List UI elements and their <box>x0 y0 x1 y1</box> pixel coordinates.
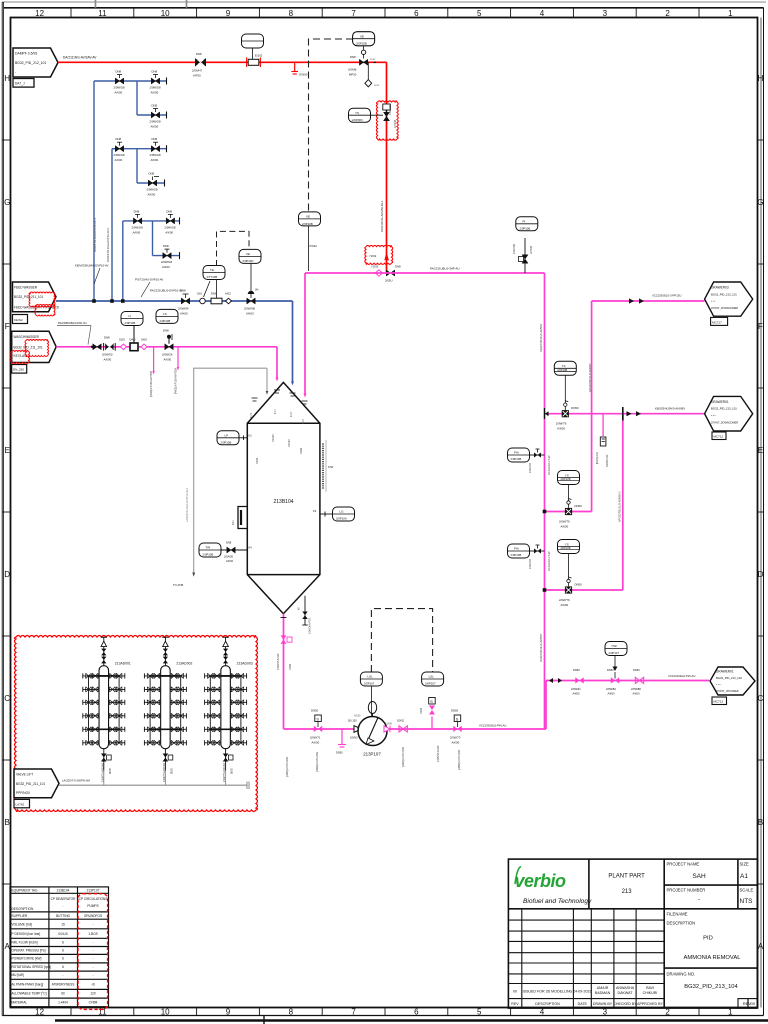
wire branch y511 <box>545 511 592 513</box>
svg-text:LS: LS <box>163 312 167 316</box>
svg-text:A/K00: A/K00 <box>452 741 460 745</box>
svg-text:S: S <box>430 700 433 704</box>
svg-text:00: 00 <box>751 1001 756 1006</box>
svg-text:A/K00: A/K00 <box>162 265 170 269</box>
svg-text:DA/203T/3U3L/0-AV/NBY: DA/203T/3U3L/0-AV/NBY <box>540 323 543 352</box>
svg-text:REV: REV <box>511 1002 519 1006</box>
flow arrows <box>627 411 632 416</box>
svg-text:50/.150: 50/.150 <box>348 719 357 723</box>
svg-text:BG32_PID_213_101: BG32_PID_213_101 <box>711 292 737 296</box>
instrument VE top <box>353 32 375 46</box>
node ticks <box>622 407 624 421</box>
svg-text:• • •: • • • <box>716 683 721 687</box>
svg-text:2/0P10B: 2/0P10B <box>221 441 232 445</box>
svg-text:2/0W/G8: 2/0W/G8 <box>114 153 125 157</box>
svg-text:2/0P10B: 2/0P10B <box>511 457 522 461</box>
svg-text:DN50: DN50 <box>573 668 580 672</box>
svg-text:2/0A/D6 A/P20: 2/0A/D6 A/P20 <box>309 618 312 634</box>
svg-text:3: 3 <box>603 9 608 18</box>
bottom cone drains <box>283 614 285 729</box>
node junctions on header <box>92 299 96 303</box>
title block <box>508 859 757 1008</box>
svg-text:VE: VE <box>246 252 250 256</box>
wire blue tree risers <box>93 81 95 301</box>
svg-text:LA/203T/3-DGA-DVP/10-AV-1: LA/203T/3-DGA-DVP/10-AV-1 <box>185 487 189 522</box>
svg-text:2/0W/04: 2/0W/04 <box>178 307 189 311</box>
svg-text:FEED WASSER/HT PIPERACK: FEED WASSER/HT PIPERACK <box>14 306 60 310</box>
svg-text:2/0W/73: 2/0W/73 <box>450 736 461 740</box>
svg-text:E/102: E/102 <box>255 54 263 58</box>
gray capillary line <box>194 368 267 573</box>
svg-text:PG/T10/4U-DVP10-AV: PG/T10/4U-DVP10-AV <box>135 278 163 282</box>
svg-text:2/0P10B: 2/0P10B <box>302 222 313 226</box>
svg-text:DN25: DN25 <box>232 767 234 774</box>
svg-text:-: - <box>62 904 63 908</box>
svg-text:VC/203T/3U3L/0-AV/NBY: VC/203T/3U3L/0-AV/NBY <box>540 633 543 662</box>
svg-text:MC712: MC712 <box>714 700 724 704</box>
svg-text:S: S <box>456 717 459 721</box>
svg-text:2/TANT_UPCOMER: 2/TANT_UPCOMER <box>716 690 739 693</box>
svg-text:2: 2 <box>665 9 670 18</box>
svg-text:S: S <box>316 717 319 721</box>
pink check diamond 1 <box>121 344 127 350</box>
svg-text:213P107: 213P107 <box>87 889 100 893</box>
svg-text:DN8: DN8 <box>152 104 158 108</box>
svg-text:A/K00: A/K00 <box>165 230 173 234</box>
svg-text:DN8: DN8 <box>116 137 122 141</box>
wire riser to y680 <box>545 681 547 730</box>
svg-text:10: 10 <box>161 9 170 18</box>
svg-text:LG: LG <box>340 510 345 514</box>
svg-text:ANWASHA: ANWASHA <box>616 986 635 990</box>
dashed signal bridge <box>217 231 250 266</box>
svg-text:G: G <box>4 198 10 207</box>
svg-text:2/0W/91: 2/0W/91 <box>571 687 581 691</box>
svg-text:2/0W/0B: 2/0W/0B <box>244 307 255 311</box>
svg-text:DN25: DN25 <box>171 767 173 774</box>
svg-text:[PA02] A/P10B-AV/P20B: [PA02] A/P10B-AV/P20B <box>175 368 178 394</box>
orifice E/102 <box>242 34 264 67</box>
svg-text:DN8: DN8 <box>116 70 122 74</box>
svg-text:VC2131UEL0-PIN.AU: VC2131UEL0-PIN.AU <box>668 674 695 678</box>
svg-text:PA/203T/3-DGA-DVP10-AV-1: PA/203T/3-DGA-DVP10-AV-1 <box>93 218 97 252</box>
svg-text:DN_250: DN_250 <box>13 368 24 372</box>
svg-text:DN8: DN8 <box>166 209 172 213</box>
svg-text:A/K00: A/K00 <box>246 312 254 316</box>
svg-text:A/K00: A/K00 <box>561 525 569 529</box>
svg-text:DN50: DN50 <box>575 583 583 587</box>
svg-text:2/0P10B: 2/0P10B <box>125 321 136 325</box>
flag DRAWER top <box>705 282 753 325</box>
svg-text:2/0W/G8: 2/0W/G8 <box>150 86 161 90</box>
svg-text:2/0P107: 2/0P107 <box>609 651 620 655</box>
svg-text:KB/V0336UM/0-DVP10-AV: KB/V0336UM/0-DVP10-AV <box>75 264 109 268</box>
svg-text:H: H <box>758 74 764 83</box>
svg-text:VALVE LIFT: VALVE LIFT <box>16 773 33 777</box>
svg-text:NRL FLOW [m3/h]: NRL FLOW [m3/h] <box>12 941 38 945</box>
valve with T actuator on header <box>178 289 190 316</box>
pink feed system <box>11 217 545 398</box>
dashed instrument line to VE bubbles <box>309 39 354 211</box>
control valve on y413 <box>554 361 579 430</box>
svg-text:H: H <box>4 74 10 83</box>
svg-text:2/0P10B: 2/0P10B <box>203 553 214 557</box>
svg-text:AT-3UA/A3.1/T-AV: AT-3UA/A3.1/T-AV <box>548 455 551 475</box>
svg-text:DN100: DN100 <box>288 439 291 447</box>
adsorber 213AD002 <box>144 637 192 785</box>
svg-text:6: 6 <box>62 957 64 961</box>
flag FEED WASSER <box>13 282 61 324</box>
svg-text:2/0P10B: 2/0P10B <box>356 42 367 46</box>
svg-text:D4/0: D4/0 <box>130 338 136 342</box>
svg-text:PIA: PIA <box>514 451 519 455</box>
svg-text:213B104: 213B104 <box>57 889 70 893</box>
flag outlet <box>710 667 755 705</box>
svg-text:DAKWAT: DAKWAT <box>618 991 634 995</box>
svg-text:[1982] A/KPN-0/AV: [1982] A/KPN-0/AV <box>286 756 289 777</box>
revision cloud spec break <box>365 245 393 264</box>
svg-text:MOB: MOB <box>374 85 380 87</box>
svg-text:EQUIPMENT TAG: EQUIPMENT TAG <box>12 889 39 893</box>
svg-text:PPP/NOX: PPP/NOX <box>16 791 31 795</box>
side zone ticks <box>2 140 763 884</box>
svg-text:2/0W/T9: 2/0W/T9 <box>559 598 570 602</box>
pink check diamond 2 <box>141 344 147 350</box>
wire pink upper header y273 <box>305 272 545 274</box>
svg-text:-: - <box>698 896 700 903</box>
vessel 213B104 <box>247 382 320 613</box>
svg-text:2/0A/N07: 2/0A/N07 <box>529 558 532 569</box>
svg-text:2/0P107: 2/0P107 <box>425 682 436 686</box>
svg-text:TO ATM: TO ATM <box>173 583 184 587</box>
svg-text:BG32_PID_211_101: BG32_PID_211_101 <box>16 782 45 786</box>
svg-text:DATE: DATE <box>578 1002 588 1006</box>
svg-text:DN25: DN25 <box>110 767 112 774</box>
svg-text:62/N2: 62/N2 <box>397 719 404 723</box>
dashed level signal rectangle <box>371 609 432 672</box>
svg-text:-/6: -/6 <box>91 983 95 987</box>
wire branch y590 <box>545 589 623 591</box>
svg-text:B: B <box>758 818 763 827</box>
svg-text:A/P20B: A/P20B <box>394 119 397 128</box>
svg-text:LA762: LA762 <box>16 802 25 806</box>
svg-text:LSL: LSL <box>367 675 373 679</box>
svg-text:P DESIGN [bar /bar]: P DESIGN [bar /bar] <box>12 932 41 936</box>
wire blue drop to vessel <box>292 301 294 382</box>
svg-text:A/K00: A/K00 <box>133 230 141 234</box>
svg-text:A/K00: A/K00 <box>151 91 159 95</box>
svg-text:E: E <box>5 446 10 455</box>
svg-text:MC712: MC712 <box>714 435 724 439</box>
svg-text:RAVI: RAVI <box>646 986 654 990</box>
svg-text:0/24-B: 0/24-B <box>58 932 67 936</box>
svg-text:DN50: DN50 <box>607 668 614 672</box>
svg-text:C: C <box>758 694 764 703</box>
svg-text:5: 5 <box>477 1008 482 1017</box>
svg-text:9: 9 <box>226 9 231 18</box>
inline strainer <box>211 292 222 304</box>
svg-text:UMAIR: UMAIR <box>597 986 609 990</box>
svg-text:2/0W/G8: 2/0W/G8 <box>150 120 161 124</box>
svg-text:YS: YS <box>562 364 566 368</box>
svg-text:E/N00: E/N00 <box>300 73 308 77</box>
svg-text:A/K00: A/K00 <box>151 125 159 129</box>
svg-text:A/K00: A/K00 <box>557 427 565 431</box>
stub x603 with sample point <box>602 414 604 436</box>
pump 213P107 <box>354 702 392 757</box>
svg-text:POWER DRIVE [kW]: POWER DRIVE [kW] <box>12 957 42 961</box>
tap capsule y455 <box>508 448 552 475</box>
bottom page shadow line <box>55 1019 768 1021</box>
side drain from cone <box>299 596 312 634</box>
svg-text:SCALE: SCALE <box>740 888 754 893</box>
svg-text:213AD001: 213AD001 <box>115 662 131 666</box>
svg-text:VOLUME [m3]: VOLUME [m3] <box>12 923 33 927</box>
svg-text:2/0P080: 2/0P080 <box>352 118 363 122</box>
svg-text:-: - <box>92 923 93 927</box>
svg-text:K1/1: K1/1 <box>275 409 277 414</box>
svg-text:DRAWER01: DRAWER01 <box>711 400 729 404</box>
svg-text:DN50: DN50 <box>311 709 319 713</box>
svg-text:KB/203/4U3H/3-AV/NBY: KB/203/4U3H/3-AV/NBY <box>655 407 686 411</box>
ruler numbers top <box>35 9 733 18</box>
adsorber 213AD003 <box>205 637 253 785</box>
svg-text:DRAWER03: DRAWER03 <box>711 286 729 290</box>
svg-text:2/0P10B: 2/0P10B <box>160 319 171 323</box>
valve pink with flanges <box>102 336 115 362</box>
svg-text:(4): (4) <box>255 288 258 292</box>
svg-text:DN25: DN25 <box>420 707 423 714</box>
blue system <box>56 70 294 386</box>
svg-text:BG32_PID_213_104: BG32_PID_213_104 <box>684 984 738 990</box>
svg-text:DA7_J: DA7_J <box>15 82 25 86</box>
svg-text:PLANT PART: PLANT PART <box>608 874 645 880</box>
svg-text:12: 12 <box>35 1008 44 1017</box>
svg-text:VE: VE <box>306 215 310 219</box>
svg-text:DN8: DN8 <box>152 137 158 141</box>
svg-text:12: 12 <box>35 9 44 18</box>
svg-text:A/P.203T/3U3L/3-AV/NBY-1: A/P.203T/3U3L/3-AV/NBY-1 <box>619 491 622 522</box>
svg-text:A/KPN-0/AV: A/KPN-0/AV <box>606 454 609 467</box>
check valve after pump <box>384 726 390 732</box>
svg-text:60: 60 <box>61 992 65 996</box>
svg-text:BG32_PID_211_101: BG32_PID_211_101 <box>14 346 43 350</box>
svg-text:VC2133UEL0-3-PP13U: VC2133UEL0-3-PP13U <box>652 294 681 298</box>
svg-text:ROTATIONAL SPEED [rpm]: ROTATIONAL SPEED [rpm] <box>12 965 52 969</box>
capsule LSL right <box>422 672 444 686</box>
inline square (LI tap) <box>130 343 138 351</box>
suction control valve <box>310 709 322 745</box>
svg-text:A/02: A/02 <box>225 292 231 296</box>
svg-text:PI: PI <box>523 220 526 224</box>
arrows on outlet header <box>549 678 553 683</box>
instrument capsule TT <box>203 266 225 280</box>
svg-text:[PA03] A/P10B-AV/P20B: [PA03] A/P10B-AV/P20B <box>150 371 153 397</box>
wire pink feed line <box>56 346 277 348</box>
svg-text:BG32_PID_213_103: BG32_PID_213_103 <box>716 676 742 680</box>
svg-text:MOB: MOB <box>370 59 376 61</box>
svg-text:DN100: DN100 <box>272 434 275 442</box>
wire outlet header y680 <box>546 680 709 682</box>
svg-text:A/K00: A/K00 <box>151 158 159 162</box>
svg-text:2/0W/G8: 2/0W/G8 <box>114 86 125 90</box>
svg-text:MP20: MP20 <box>349 73 357 77</box>
svg-text:2/0A/N03: 2/0A/N03 <box>389 104 392 115</box>
svg-text:D: D <box>4 570 10 579</box>
svg-text:2/0A/N07: 2/0A/N07 <box>529 462 532 473</box>
verbio logo <box>515 867 593 906</box>
wire blue main header <box>56 300 293 302</box>
blue manifold branches with valves <box>94 80 167 82</box>
tap capsule y551 <box>508 544 552 571</box>
svg-text:A/K00: A/K00 <box>573 692 581 696</box>
svg-text:DN25: DN25 <box>256 457 259 464</box>
wire riser x622 <box>622 414 624 590</box>
svg-text:DAMPF 0,5/93: DAMPF 0,5/93 <box>15 52 37 56</box>
wire branch y301 <box>592 300 705 302</box>
svg-text:DRAWING NO.: DRAWING NO. <box>667 972 696 977</box>
svg-text:2/0A/H7: 2/0A/H7 <box>192 69 203 73</box>
svg-text:OPERAT. PRESSU [Pa]: OPERAT. PRESSU [Pa] <box>12 949 46 953</box>
svg-text:APPROVED BY: APPROVED BY <box>637 1002 663 1006</box>
svg-text:2/05U: 2/05U <box>385 279 392 283</box>
svg-text:K2: K2 <box>249 434 253 438</box>
revision cloud valve YS <box>376 101 398 140</box>
svg-text:AT-3UA/A3.1/T-AV: AT-3UA/A3.1/T-AV <box>548 551 551 571</box>
svg-text:1: 1 <box>728 9 733 18</box>
flag DAMPF inlet <box>13 48 58 87</box>
svg-text:LA/203/T-0-S/KPN-0/A: LA/203/T-0-S/KPN-0/A <box>62 779 90 783</box>
svg-text:K4/1: K4/1 <box>233 520 235 525</box>
svg-text:ISSUED FOR 3D MODELLING: ISSUED FOR 3D MODELLING <box>523 990 573 994</box>
svg-text:2/0W/T9: 2/0W/T9 <box>556 422 567 426</box>
svg-text:DA/2111NG-AV/3AV-AV: DA/2111NG-AV/3AV-AV <box>63 56 97 60</box>
svg-text:2/0W/N5 A/K00: 2/0W/N5 A/K00 <box>437 745 440 762</box>
svg-text:MC717: MC717 <box>712 320 722 324</box>
svg-text:N1/50: N1/50 <box>354 715 361 718</box>
svg-text:A/P20: A/P20 <box>193 74 201 78</box>
revision table grid <box>508 909 757 1008</box>
svg-text:BADMAN: BADMAN <box>595 991 611 995</box>
svg-text:YS: YS <box>565 473 569 477</box>
adsorber box <box>14 636 258 812</box>
svg-text:DN8: DN8 <box>196 52 202 56</box>
svg-text:TE: TE <box>210 268 214 272</box>
control valve on header <box>244 264 258 316</box>
svg-text:1-BOS: 1-BOS <box>88 932 98 936</box>
svg-text:K/W: K/W <box>328 465 334 469</box>
flag WASCHWASSER <box>12 331 57 373</box>
svg-text:YS#: YS# <box>611 644 617 648</box>
svg-text:D: D <box>758 570 764 579</box>
svg-text:2/0W/G8: 2/0W/G8 <box>161 260 172 264</box>
svg-text:-: - <box>92 941 93 945</box>
thermowell circle <box>197 281 210 304</box>
instrument TIR lower left <box>199 541 252 564</box>
right connection LG <box>313 507 355 521</box>
svg-text:DN8: DN8 <box>226 541 232 545</box>
svg-text:BUTTING: BUTTING <box>56 914 71 918</box>
svg-text:A/K00: A/K00 <box>148 193 156 197</box>
svg-text:WASCHWASSER: WASCHWASSER <box>14 335 40 339</box>
svg-text:7: 7 <box>351 9 356 18</box>
svg-text:PID: PID <box>703 936 713 942</box>
valve V1 <box>192 52 206 78</box>
svg-text:SUPPLIER: SUPPLIER <box>12 914 28 918</box>
level hatch strip <box>322 443 324 489</box>
valve black <box>91 344 101 350</box>
adsorber 213AD001 <box>83 637 131 785</box>
svg-text:AMMONIA REMOVAL: AMMONIA REMOVAL <box>684 955 742 961</box>
svg-text:15: 15 <box>61 923 65 927</box>
discharge control valve <box>450 709 462 745</box>
svg-text:YS: YS <box>565 542 569 546</box>
svg-text:213AD003: 213AD003 <box>237 662 253 666</box>
svg-text:DN8: DN8 <box>152 70 158 74</box>
svg-text:K1/4: K1/4 <box>251 413 253 418</box>
svg-text:[1984] A/KPN-0/AV: [1984] A/KPN-0/AV <box>402 746 405 767</box>
svg-text:B: B <box>5 818 10 827</box>
tables <box>10 887 109 1010</box>
svg-text:213P107: 213P107 <box>363 752 381 757</box>
svg-text:A: A <box>758 942 764 951</box>
svg-text:YS: YS <box>355 111 359 115</box>
svg-text:AL PMIN-PMAX [barg]: AL PMIN-PMAX [barg] <box>12 983 44 987</box>
svg-text:5: 5 <box>477 9 482 18</box>
svg-text:2/0W/G8: 2/0W/G8 <box>147 188 158 192</box>
svg-text:PA/2131UBL/0-3HP-AU: PA/2131UBL/0-3HP-AU <box>430 267 460 271</box>
svg-text:S/N: S/N <box>197 292 202 296</box>
flag VALVE LIFT <box>14 769 59 808</box>
capsule LSL left <box>360 672 382 716</box>
svg-text:-: - <box>62 973 63 977</box>
svg-text:1.4404: 1.4404 <box>58 1001 68 1005</box>
svg-text:6: 6 <box>62 965 64 969</box>
svg-text:2/0W/B0: 2/0W/B0 <box>631 687 642 691</box>
svg-text:BG32_PID_213_101: BG32_PID_213_101 <box>711 407 737 411</box>
svg-text:2/0W/T9: 2/0W/T9 <box>559 520 570 524</box>
svg-text:6: 6 <box>62 941 64 945</box>
svg-text:A/K00: A/K00 <box>115 158 123 162</box>
isolation valve <box>397 719 407 733</box>
wire pink drop x305 <box>304 273 306 394</box>
svg-text:A/P.203T/3U3L/3-AV/NBY: A/P.203T/3U3L/3-AV/NBY <box>589 363 592 392</box>
svg-text:BG32_PID_212_101: BG32_PID_212_101 <box>15 61 46 65</box>
revision cloud around pump column <box>78 894 108 1010</box>
equipment data table <box>10 887 109 1007</box>
svg-text:CHIKURI: CHIKURI <box>643 991 658 995</box>
svg-text:2/0W/26: 2/0W/26 <box>162 353 173 357</box>
svg-text:213: 213 <box>622 889 633 895</box>
svg-text:DN8: DN8 <box>163 329 169 333</box>
svg-text:ATM/DRYNESS: ATM/DRYNESS <box>52 983 75 987</box>
instrument VE mid <box>299 212 321 271</box>
instrument capsule TIR <box>239 249 261 263</box>
svg-text:[1983] A/KPN-0/AV: [1983] A/KPN-0/AV <box>316 751 319 772</box>
svg-text:2/0P10B: 2/0P10B <box>520 227 531 231</box>
svg-text:2/0W/00: 2/0W/00 <box>102 353 113 357</box>
svg-text:LP: LP <box>225 434 229 438</box>
svg-text:DN8: DN8 <box>163 244 169 248</box>
svg-text:2/0W/D5 A/K00: 2/0W/D5 A/K00 <box>277 653 280 670</box>
svg-text:NTS: NTS <box>740 898 754 905</box>
svg-text:10: 10 <box>161 1008 170 1017</box>
svg-text:LSL: LSL <box>429 675 435 679</box>
svg-text:A/K00: A/K00 <box>104 358 112 362</box>
red drain stub E/N00 <box>291 62 307 76</box>
svg-text:8: 8 <box>289 1008 294 1017</box>
svg-text:SIZE: SIZE <box>740 862 750 867</box>
